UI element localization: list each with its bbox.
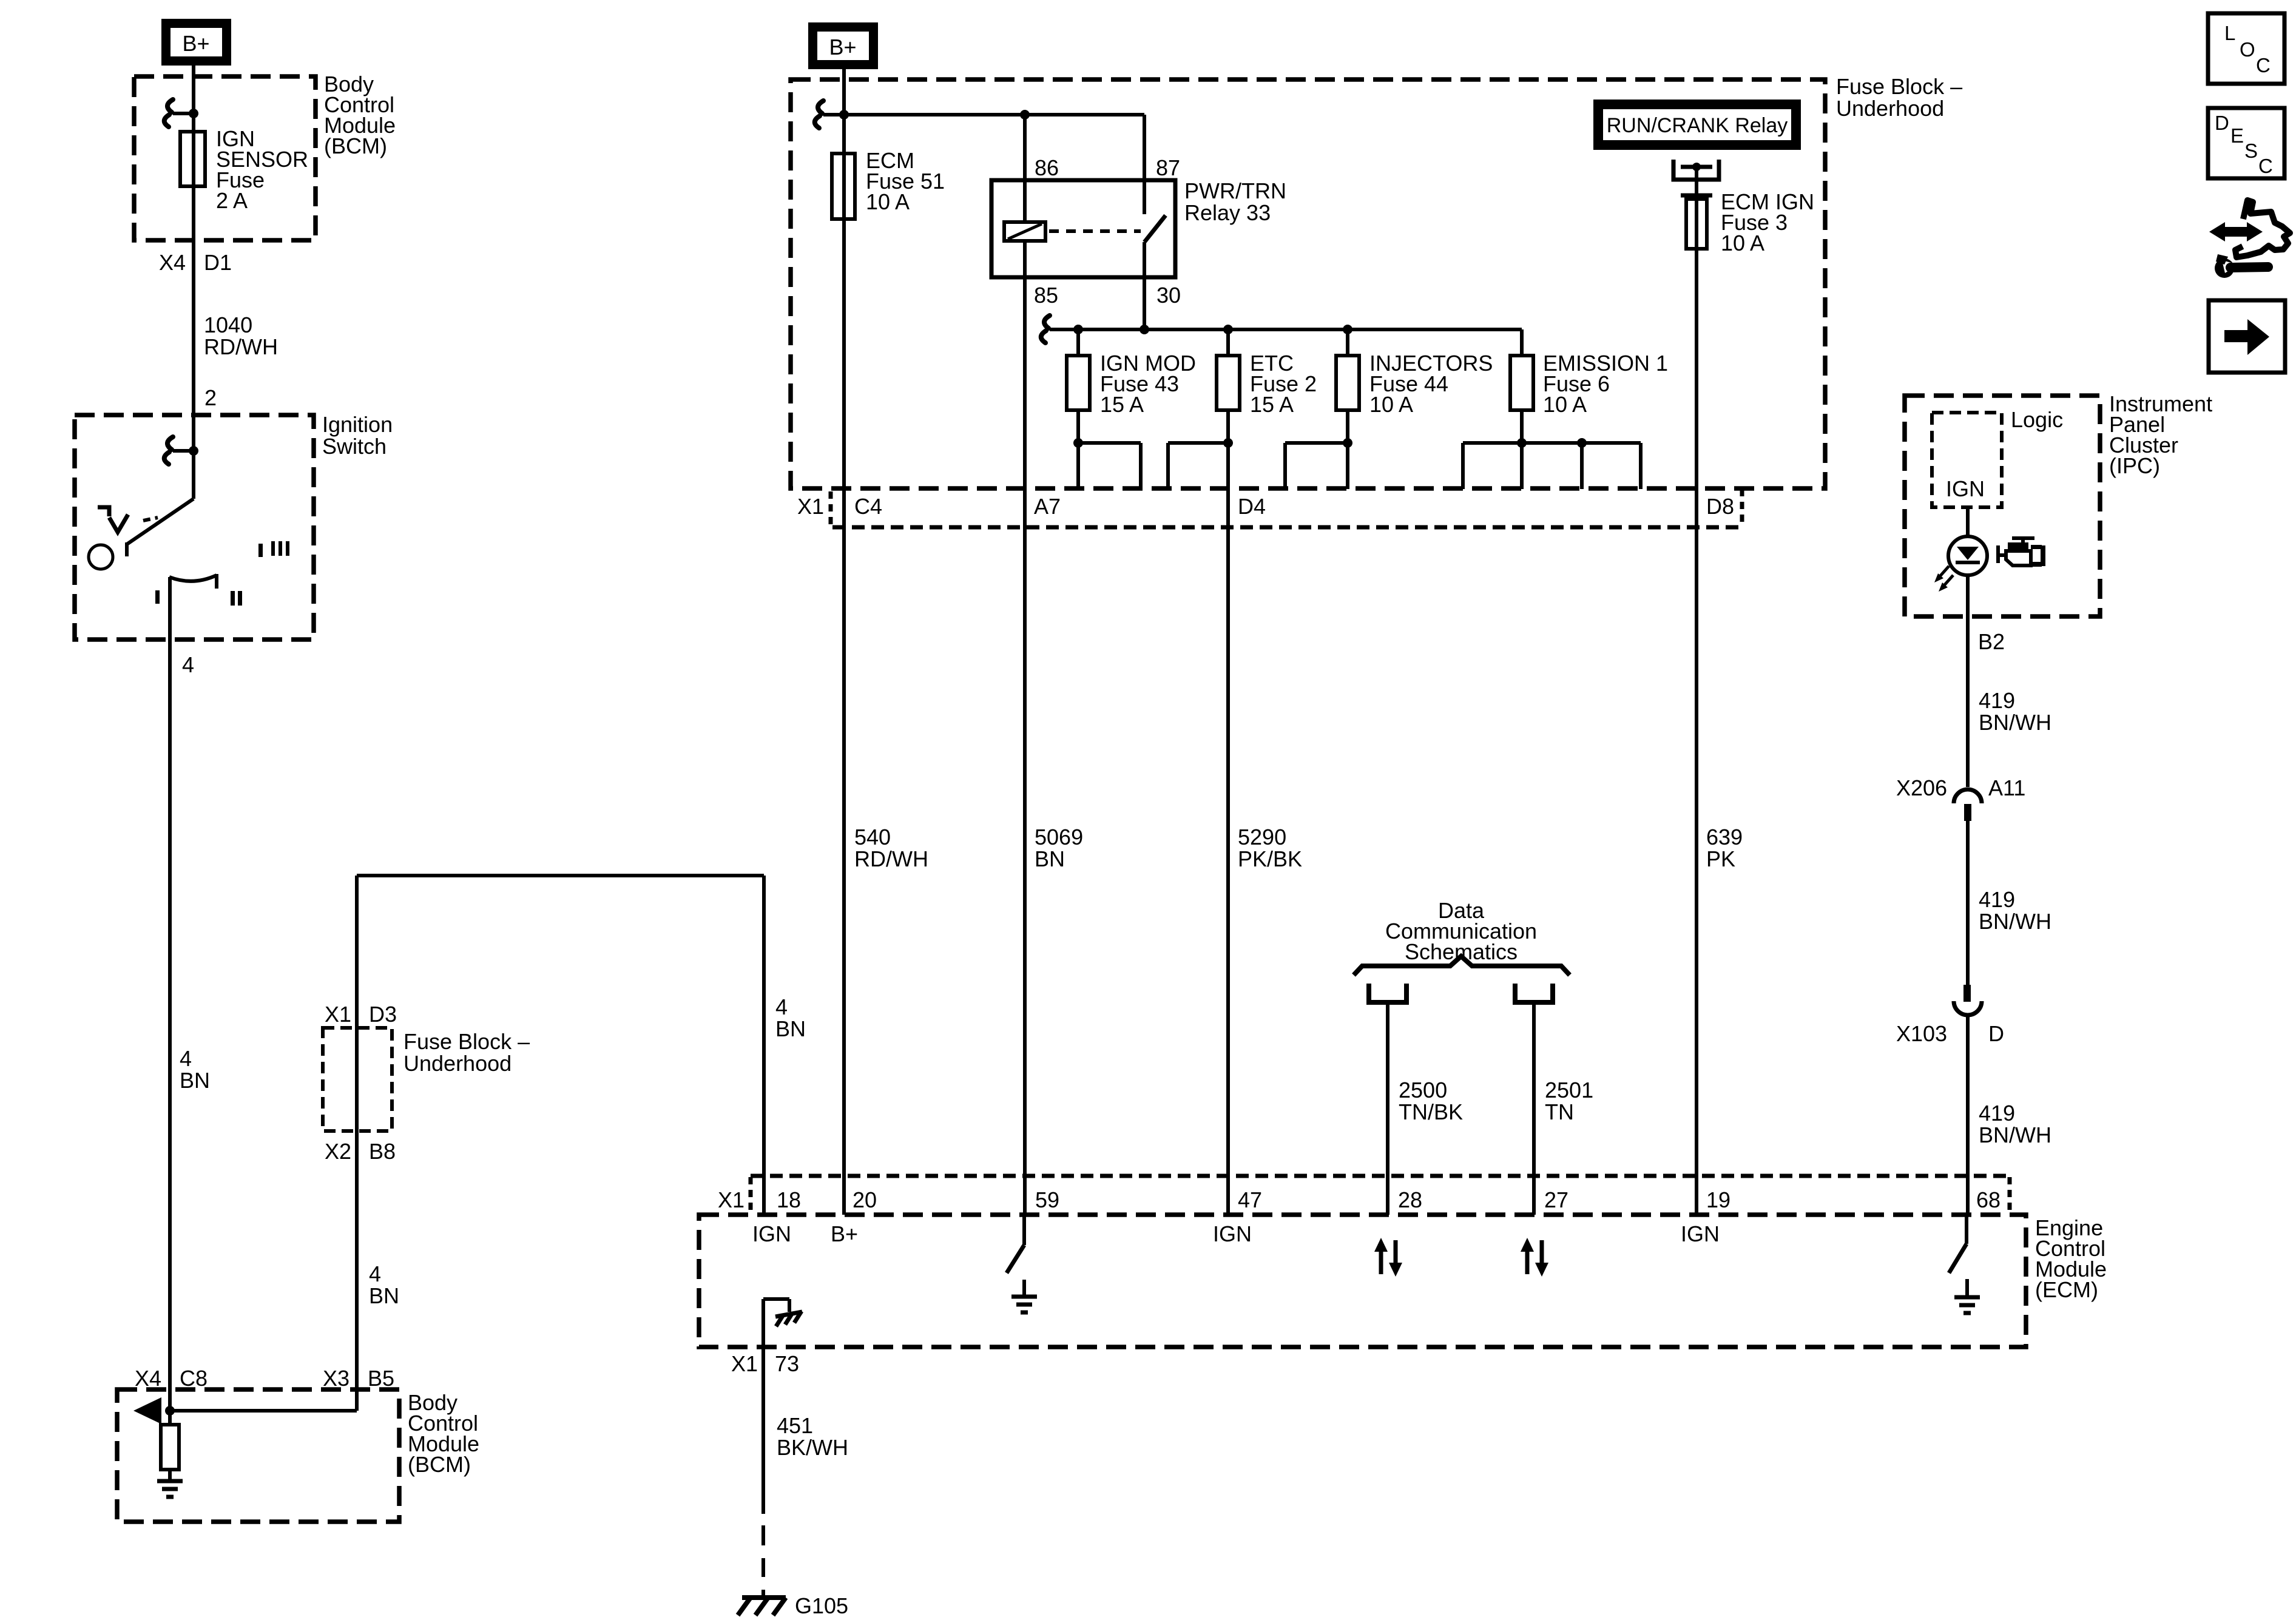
wire LED to B2 <box>1966 575 1970 787</box>
net label B+ (pin 20) <box>831 1221 858 1246</box>
svg-text:419: 419 <box>1979 688 2015 713</box>
junction dot (fuse bus / 30) <box>1140 325 1149 334</box>
svg-text:18: 18 <box>777 1187 801 1212</box>
cavity bridge EMISSION <box>1463 443 1641 489</box>
net label IGN (pin 19) <box>1681 1221 1720 1246</box>
svg-text:4: 4 <box>775 994 788 1019</box>
in-line connector X103 D <box>1954 985 1982 1015</box>
pin label D8 <box>1706 494 1734 519</box>
wire label 1040 RD/WH <box>204 312 278 359</box>
svg-text:27: 27 <box>1544 1187 1568 1212</box>
label Engine Control Module (ECM) <box>2035 1215 2107 1302</box>
svg-text:30: 30 <box>1156 283 1181 308</box>
svg-text:Underhood: Underhood <box>403 1051 512 1076</box>
label ETC Fuse 2 15 A <box>1250 351 1317 417</box>
position mark I (upper) <box>258 544 263 557</box>
pin label 20 <box>853 1187 877 1212</box>
svg-text:Ignition: Ignition <box>322 412 393 437</box>
connector strip X1 left cap <box>829 491 833 527</box>
svg-text:L: L <box>2224 22 2235 44</box>
attachment hook (B+ bus) <box>815 101 844 128</box>
bidirectional data arrows (pin 27) <box>1521 1238 1548 1277</box>
pin label B2 <box>1978 629 2005 654</box>
junction dot (EMISSION cavity A) <box>1517 438 1527 448</box>
wire bus B+ to relay <box>844 113 1144 116</box>
pin label 86 <box>1035 155 1059 180</box>
relay linkage (dashed) <box>1049 229 1141 233</box>
ground symbol (pin 59) <box>1011 1297 1037 1312</box>
pin label 68 <box>1976 1187 2001 1212</box>
wire ETC fuse top <box>1226 329 1230 356</box>
wire BCM internal horizontal <box>170 1409 357 1413</box>
module box BCM (top) <box>134 76 316 240</box>
module box Ignition Switch <box>75 415 314 640</box>
switch to ground (pin 68) <box>1949 1215 1967 1297</box>
module box Engine Control Module (ECM) <box>699 1215 2026 1347</box>
junction dot (fuse clip) <box>1692 163 1701 171</box>
wire INJECTORS fuse top <box>1346 329 1349 356</box>
svg-text:10 A: 10 A <box>866 189 910 214</box>
wire ignition pin4 down (4 BN) <box>168 577 172 1411</box>
net label IGN (IPC) <box>1946 476 1985 501</box>
module box Fuse Block - Underhood <box>791 79 1825 488</box>
svg-text:2501: 2501 <box>1545 1078 1593 1102</box>
label PWR/TRN Relay 33 <box>1184 178 1286 225</box>
label ECM IGN Fuse 3 10 A <box>1721 189 1814 255</box>
svg-text:(BCM): (BCM) <box>408 1452 471 1477</box>
chassis ground glyph (ECM internal) <box>775 1311 802 1326</box>
junction dot (EMISSION cavity B) <box>1577 438 1587 448</box>
svg-text:B5: B5 <box>368 1366 394 1391</box>
svg-text:87: 87 <box>1156 155 1180 180</box>
connector label X4 D1 <box>159 250 232 275</box>
connector strip X1 right cap <box>1740 489 1744 527</box>
switch to ground (pin 59) <box>1007 1215 1024 1297</box>
svg-text:19: 19 <box>1706 1187 1730 1212</box>
svg-text:4: 4 <box>182 652 194 677</box>
svg-text:IGN: IGN <box>1213 1221 1252 1246</box>
svg-text:C8: C8 <box>180 1366 208 1391</box>
icon wiring repair (arrows, connector, wrench) <box>2209 200 2290 278</box>
svg-text:O: O <box>2240 38 2255 61</box>
pin label 27 <box>1544 1187 1568 1212</box>
fuse clip (RUN/CRANK output) <box>1673 160 1719 180</box>
relay switch blade <box>1144 215 1166 242</box>
pin label A7 <box>1034 494 1061 519</box>
LED light arrows <box>1934 566 1953 592</box>
svg-text:X206: X206 <box>1896 775 1947 800</box>
label IGN MOD Fuse 43 15 A <box>1100 351 1196 417</box>
svg-text:73: 73 <box>775 1351 799 1376</box>
svg-text:20: 20 <box>853 1187 877 1212</box>
connector labels X4 C8 X3 B5 <box>135 1366 394 1391</box>
junction dot (IGN MOD) <box>1073 325 1083 334</box>
svg-text:BN: BN <box>1035 846 1065 871</box>
wire label 2501 TN <box>1545 1078 1593 1124</box>
junction dot (B+ bus) <box>839 110 849 120</box>
pin label 47 <box>1238 1187 1262 1212</box>
svg-text:1040: 1040 <box>204 312 252 337</box>
svg-text:47: 47 <box>1238 1187 1262 1212</box>
pin label 18 <box>777 1187 801 1212</box>
module box BCM (bottom) <box>117 1389 399 1522</box>
svg-text:Fuse Block –: Fuse Block – <box>1836 74 1962 99</box>
logic box (IPC) <box>1932 413 2002 507</box>
connector label X1 (ECM) <box>718 1187 745 1212</box>
junction dot (INJECTORS cavity) <box>1343 438 1352 448</box>
svg-text:X103: X103 <box>1896 1021 1947 1046</box>
icon box forward arrow <box>2209 300 2285 373</box>
svg-text:15 A: 15 A <box>1100 392 1144 417</box>
wire B+ down to ECM pin 20 (540 RD/WH) <box>842 69 846 1215</box>
module box Instrument Panel Cluster (IPC) <box>1905 396 2100 616</box>
wire label 4 BN (left) <box>180 1046 210 1093</box>
wire to ECM pin 27 (2501 TN) <box>1532 1002 1536 1215</box>
pin label 59 <box>1035 1187 1059 1212</box>
svg-text:D1: D1 <box>204 250 232 275</box>
attachment hook (ignition feed) <box>164 437 194 464</box>
pin label C4 <box>854 494 882 519</box>
svg-text:4: 4 <box>369 1261 381 1286</box>
svg-text:A11: A11 <box>1988 775 2025 800</box>
ground symbol (pin 68) <box>1954 1297 1980 1313</box>
svg-text:5069: 5069 <box>1035 825 1083 849</box>
wire B+ to ignition switch (1040 RD/WH) <box>192 66 195 499</box>
label EMISSION 1 Fuse 6 10 A <box>1543 351 1668 417</box>
wire down to ECM pin 18 <box>762 876 766 1215</box>
svg-text:D8: D8 <box>1706 494 1734 519</box>
position mark III <box>271 541 289 556</box>
pin label 19 <box>1706 1187 1730 1212</box>
resistive element in BCM <box>161 1411 179 1481</box>
relay box PWR/TRN Relay 33 <box>991 180 1175 277</box>
label INJECTORS Fuse 44 10 A <box>1369 351 1493 417</box>
cavity bridge IGN MOD <box>1078 443 1141 489</box>
svg-text:PK: PK <box>1706 846 1735 871</box>
wire fuse bus <box>1056 328 1522 331</box>
fuse IGN MOD Fuse 43 15A <box>1067 356 1090 410</box>
svg-text:B+: B+ <box>829 35 856 59</box>
wire X206 to X103 <box>1966 821 1970 985</box>
svg-text:X1: X1 <box>325 1002 351 1027</box>
pass-through box Fuse Block Underhood (X1 D3 / X2 B8) <box>323 1028 392 1131</box>
svg-text:86: 86 <box>1035 155 1059 180</box>
relay coil <box>1004 222 1045 241</box>
svg-text:X3: X3 <box>323 1366 349 1391</box>
svg-text:540: 540 <box>854 825 891 849</box>
svg-text:BN: BN <box>180 1068 210 1093</box>
arrow into BCM <box>133 1397 161 1424</box>
svg-text:IGN: IGN <box>752 1221 791 1246</box>
power terminal B+ (middle) <box>808 22 878 69</box>
position mark I (lower) <box>155 590 160 604</box>
connector label X1 (fuse block) <box>797 494 824 519</box>
fuse EMISSION 1 Fuse 6 10A <box>1510 356 1533 410</box>
svg-text:D: D <box>2215 112 2229 134</box>
power terminal B+ (left) <box>161 19 231 66</box>
pin label 87 <box>1156 155 1180 180</box>
junction dot (BCM bottom) <box>165 1406 175 1416</box>
svg-text:10 A: 10 A <box>1543 392 1587 417</box>
svg-text:X4: X4 <box>159 250 186 275</box>
svg-text:BN: BN <box>775 1016 806 1041</box>
label Body Control Module (BCM) bottom <box>408 1390 479 1477</box>
indicator LED diode <box>1956 547 1980 562</box>
svg-text:5290: 5290 <box>1238 825 1286 849</box>
wire label 451 BK/WH <box>777 1413 848 1460</box>
icon box LOC <box>2208 13 2284 84</box>
svg-text:BN/WH: BN/WH <box>1979 1122 2051 1147</box>
svg-text:Schematics: Schematics <box>1405 939 1518 964</box>
svg-text:TN: TN <box>1545 1099 1574 1124</box>
check engine icon <box>1996 536 2045 567</box>
svg-text:B8: B8 <box>369 1139 396 1164</box>
wire label 4 BN (pin18 wire) <box>775 994 806 1041</box>
wire X3-B5 vertical (4 BN) <box>355 876 359 1411</box>
connector strip X1 (fuse block) bottom line <box>832 525 1742 530</box>
detent arc <box>169 574 217 589</box>
indicator LED circle <box>1948 536 1987 575</box>
fuse INJECTORS Fuse 44 10A <box>1336 356 1359 410</box>
junction dot (BCM feed) <box>189 109 198 118</box>
svg-text:X1: X1 <box>718 1187 745 1212</box>
svg-text:D: D <box>1988 1021 2004 1046</box>
pin label D4 <box>1238 494 1266 519</box>
svg-text:X1: X1 <box>797 494 824 519</box>
label Instrument Panel Cluster (IPC) <box>2109 391 2212 478</box>
connector strip X1 (ECM) top line <box>751 1174 2010 1178</box>
pin label 28 <box>1398 1187 1422 1212</box>
label Ignition Switch <box>322 412 393 459</box>
connector strip X1 (ECM) right cap <box>2008 1177 2012 1214</box>
pin label 4 <box>182 652 194 677</box>
svg-text:85: 85 <box>1034 283 1058 308</box>
wire label 540 RD/WH <box>854 825 928 871</box>
pin label 30 <box>1156 283 1181 308</box>
label box RUN/CRANK Relay <box>1593 100 1801 150</box>
junction dot (ignition feed) <box>189 446 198 456</box>
label Data Communication Schematics <box>1385 898 1537 964</box>
svg-text:451: 451 <box>777 1413 813 1438</box>
svg-text:419: 419 <box>1979 887 2015 912</box>
pin label 2 <box>204 385 217 410</box>
label Fuse Block - Underhood <box>1836 74 1962 121</box>
off-page connector (pin 27) <box>1515 984 1553 1002</box>
svg-text:59: 59 <box>1035 1187 1059 1212</box>
wire label 419 BN/WH (3) <box>1979 1101 2051 1147</box>
svg-text:B+: B+ <box>182 31 209 56</box>
wire EMISSION fuse top (bus corner) <box>1520 329 1524 356</box>
wire label 4 BN (X3 wire) <box>369 1261 399 1308</box>
icon box DESC <box>2208 108 2284 178</box>
svg-text:C4: C4 <box>854 494 882 519</box>
wire IGN MOD fuse top <box>1076 329 1080 356</box>
svg-text:(ECM): (ECM) <box>2035 1277 2098 1302</box>
brace (data communication) <box>1354 956 1570 975</box>
svg-text:2 A: 2 A <box>216 188 248 213</box>
svg-text:IGN: IGN <box>1946 476 1985 501</box>
svg-text:A7: A7 <box>1034 494 1061 519</box>
pin label 85 <box>1034 283 1058 308</box>
connector label X2 B8 <box>325 1139 396 1164</box>
cavity bridge ETC <box>1168 443 1228 489</box>
svg-text:2: 2 <box>204 385 217 410</box>
wire horizontal to ECM pin18 (4 BN) <box>357 874 764 877</box>
svg-text:BK/WH: BK/WH <box>777 1435 848 1460</box>
svg-text:28: 28 <box>1398 1187 1422 1212</box>
svg-text:B2: B2 <box>1978 629 2005 654</box>
svg-text:Underhood: Underhood <box>1836 96 1944 121</box>
svg-text:S: S <box>2244 140 2258 162</box>
svg-text:E: E <box>2230 124 2244 147</box>
svg-text:15 A: 15 A <box>1250 392 1294 417</box>
key symbol <box>98 507 158 532</box>
svg-text:X2: X2 <box>325 1139 351 1164</box>
wire label 5290 PK/BK <box>1238 825 1302 871</box>
attachment hook (BCM feed) <box>164 100 194 127</box>
svg-text:TN/BK: TN/BK <box>1399 1099 1463 1124</box>
off-page connector (pin 28) <box>1369 984 1406 1002</box>
svg-text:Switch: Switch <box>322 434 387 459</box>
wire relay pin 85 to ECM pin 59 (5069 BN) <box>1023 241 1027 1215</box>
junction dot (86 branch) <box>1020 110 1030 120</box>
label IGN SENSOR Fuse 2 A <box>216 126 308 213</box>
svg-text:RD/WH: RD/WH <box>204 334 278 359</box>
wire label 419 BN/WH (2) <box>1979 887 2051 934</box>
connector label X103 D <box>1896 1021 2004 1046</box>
junction dot (ETC) <box>1223 325 1233 334</box>
connector label X1 73 <box>731 1351 799 1376</box>
wire EMISSION fuse bottom <box>1520 410 1524 443</box>
svg-text:C: C <box>2258 155 2273 177</box>
junction dot (IGN MOD cavity) <box>1073 438 1083 448</box>
net label IGN (pin 47) <box>1213 1221 1252 1246</box>
svg-text:IGN: IGN <box>1681 1221 1720 1246</box>
wire label 419 BN/WH (1) <box>1979 688 2051 735</box>
fuse ECM IGN Fuse 3 10A <box>1686 199 1707 249</box>
svg-text:68: 68 <box>1976 1187 2001 1212</box>
switch blade (ignition) <box>127 499 194 556</box>
fuse cap bar (ECM IGN) <box>1681 194 1712 198</box>
lock cylinder circle <box>89 545 113 569</box>
junction dot (ETC cavity) <box>1223 438 1233 448</box>
svg-text:10 A: 10 A <box>1721 231 1764 255</box>
svg-text:X4: X4 <box>135 1366 161 1391</box>
svg-text:PK/BK: PK/BK <box>1238 846 1302 871</box>
connector label X1 D3 <box>325 1002 397 1027</box>
fuse IGN SENSOR Fuse 2A <box>180 132 205 186</box>
in-line connector X206 A11 <box>1954 789 1982 821</box>
svg-text:(BCM): (BCM) <box>324 133 387 158</box>
fuse ECM Fuse 51 10A <box>832 154 855 219</box>
connector label X206 A11 <box>1896 775 2025 800</box>
svg-text:419: 419 <box>1979 1101 2015 1126</box>
label Fuse Block Underhood (small) <box>403 1029 530 1076</box>
svg-text:BN/WH: BN/WH <box>1979 710 2051 735</box>
wire X103 to ECM pin 68 <box>1966 1015 1970 1215</box>
label Logic <box>2011 407 2063 432</box>
fuse ETC Fuse 2 15A <box>1217 356 1240 410</box>
bidirectional data arrows (pin 28) <box>1374 1238 1402 1277</box>
svg-text:PWR/TRN: PWR/TRN <box>1184 178 1286 203</box>
svg-text:D3: D3 <box>369 1002 397 1027</box>
svg-text:G105: G105 <box>795 1593 848 1617</box>
svg-text:Relay 33: Relay 33 <box>1184 200 1271 225</box>
svg-text:639: 639 <box>1706 825 1743 849</box>
wire ECM internal ground (pin 73) <box>763 1299 789 1514</box>
label ECM Fuse 51 10 A <box>866 148 945 214</box>
ground symbol (BCM) <box>157 1481 183 1497</box>
svg-text:C: C <box>2256 54 2271 76</box>
svg-text:(IPC): (IPC) <box>2109 453 2160 478</box>
wire 451 BK/WH dashed to G105 <box>761 1525 765 1598</box>
svg-text:2500: 2500 <box>1399 1078 1447 1102</box>
ground G105 symbol <box>738 1598 786 1615</box>
wire IGN MOD fuse bottom <box>1076 410 1080 443</box>
wire logic to indicator <box>1966 507 1970 536</box>
net label IGN (pin 18) <box>752 1221 791 1246</box>
svg-text:Fuse Block –: Fuse Block – <box>403 1029 530 1054</box>
wire to ECM pin 28 (2500 TN/BK) <box>1386 1002 1389 1215</box>
wire ECM IGN fuse to ECM pin 19 (639 PK) <box>1695 167 1698 1215</box>
wire label 5069 BN <box>1035 825 1083 871</box>
cavity bridge INJECTORS <box>1285 443 1348 489</box>
position mark II <box>231 591 242 606</box>
wire relay pin 86 <box>1023 115 1027 222</box>
wire relay pin 30 <box>1143 242 1146 329</box>
attachment hook (fuse bus) <box>1041 316 1070 343</box>
svg-text:4: 4 <box>180 1046 192 1071</box>
svg-text:BN: BN <box>369 1283 399 1308</box>
wire ETC fuse to ECM pin 47 (5290 PK/BK) <box>1226 410 1230 1215</box>
svg-text:X1: X1 <box>731 1351 758 1376</box>
svg-text:10 A: 10 A <box>1369 392 1413 417</box>
wire label 639 PK <box>1706 825 1743 871</box>
svg-text:RUN/CRANK Relay: RUN/CRANK Relay <box>1607 114 1788 137</box>
wire relay pin 87 stub <box>1143 115 1146 214</box>
label Body Control Module (BCM) <box>324 72 396 158</box>
svg-text:BN/WH: BN/WH <box>1979 909 2051 934</box>
wire INJECTORS fuse bottom <box>1346 410 1349 489</box>
connector strip X1 (ECM) left cap <box>749 1177 753 1214</box>
svg-text:D4: D4 <box>1238 494 1266 519</box>
svg-text:Logic: Logic <box>2011 407 2063 432</box>
svg-text:RD/WH: RD/WH <box>854 846 928 871</box>
label G105 <box>795 1593 848 1617</box>
svg-text:B+: B+ <box>831 1221 858 1246</box>
junction dot (INJECTORS) <box>1343 325 1352 334</box>
wire label 2500 TN/BK <box>1399 1078 1463 1124</box>
